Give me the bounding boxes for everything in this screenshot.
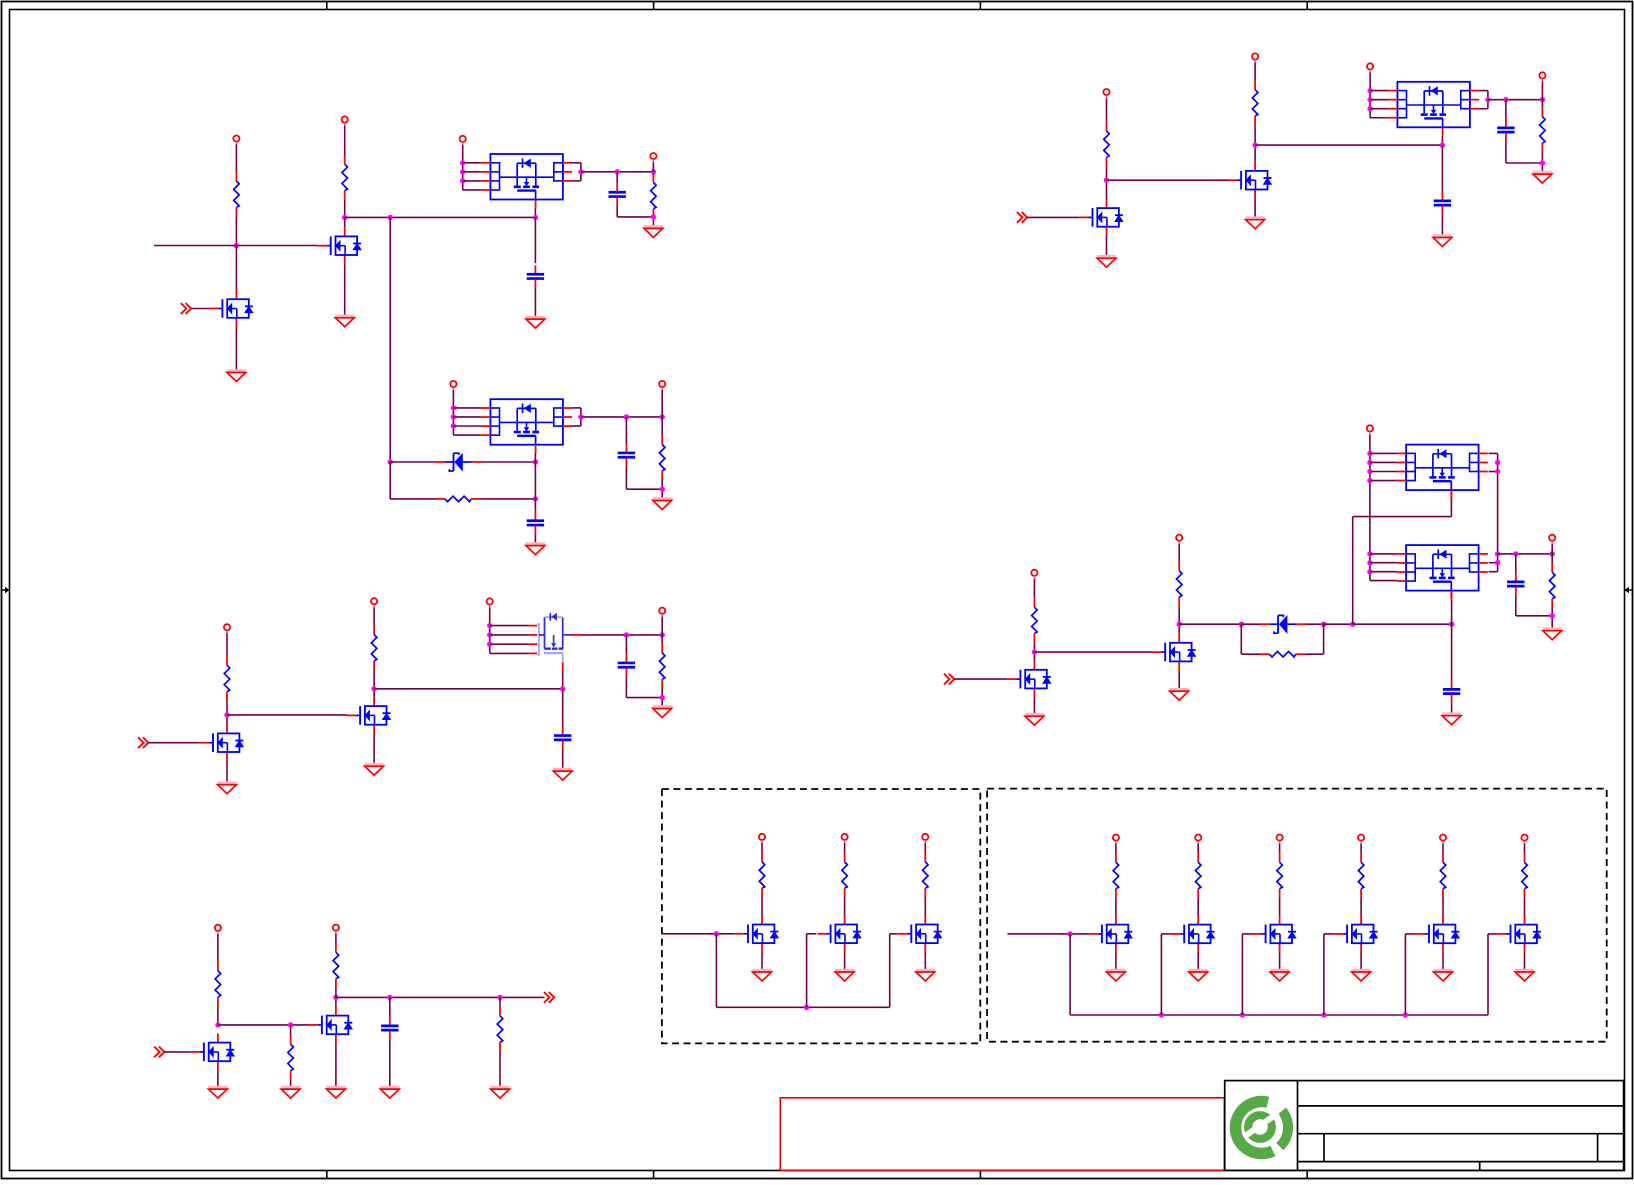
wire: [462, 145, 464, 190]
transistor Q2: [318, 227, 362, 264]
wire right pins bar: [580, 163, 582, 181]
node pin3 junction: [460, 178, 465, 183]
power port P9: [487, 598, 493, 607]
wire: [389, 462, 391, 499]
resistor R13: [1104, 122, 1110, 167]
ground: [916, 970, 935, 981]
wire: [235, 246, 237, 291]
wire: [148, 742, 199, 744]
node junction C1 top: [615, 169, 620, 174]
resistor R28: [1522, 853, 1528, 898]
ground: [653, 707, 672, 718]
wire pin4: [490, 652, 529, 654]
ground: [1442, 714, 1461, 725]
wire riser cell B: [806, 934, 808, 1008]
node junction R19 top: [1550, 551, 1555, 556]
wire: [1033, 579, 1035, 598]
logo EasyEDA: [1236, 1102, 1289, 1154]
node junction U5 srcpin3: [1495, 469, 1500, 474]
ground: [1433, 970, 1452, 981]
wire gate line Q4: [227, 714, 347, 716]
wire: [661, 390, 663, 417]
capacitor C4: [527, 512, 544, 534]
wire gate line Q6: [218, 1024, 309, 1026]
power port P7: [224, 624, 230, 633]
wire: [625, 466, 627, 489]
ground: [335, 316, 354, 327]
output port chevron OUT1: [544, 992, 554, 1003]
wire: [1279, 898, 1281, 916]
node junction R5 top: [660, 414, 665, 419]
wire: [616, 206, 618, 217]
wire: [1033, 698, 1035, 714]
wire source net out: [1498, 553, 1553, 555]
resistor R16: [1032, 598, 1038, 643]
power port P19: [1367, 425, 1373, 434]
wire drain bus: [345, 216, 536, 218]
node junction U6 srcpin1: [1495, 551, 1500, 556]
power port P8: [371, 598, 377, 607]
wire: [335, 997, 337, 1006]
wire: [661, 617, 663, 635]
power mosfet U5: [1397, 445, 1488, 499]
wire: [761, 843, 763, 853]
power port array2-2: [1195, 835, 1201, 844]
wire: [1442, 844, 1444, 854]
node junction R8 bottom: [660, 695, 665, 700]
node junction C5 top: [624, 632, 629, 637]
wire: [924, 843, 926, 853]
node junction R1-gate wire: [234, 243, 239, 248]
node junction zener right: [1321, 622, 1326, 627]
node pin3 junction: [1367, 106, 1372, 111]
transistor Q11: [735, 915, 779, 952]
ground: [1189, 970, 1208, 981]
wire: [761, 952, 763, 970]
wire pin4: [463, 189, 482, 191]
wire: [1551, 544, 1553, 554]
wire bypass left: [1240, 624, 1242, 654]
wire: [1197, 952, 1199, 969]
resistor R12: [497, 1007, 503, 1052]
power port P16: [1539, 72, 1545, 81]
resistor R11: [333, 943, 339, 988]
resistor R22: [923, 853, 929, 898]
resistor R27: [1440, 853, 1446, 898]
transistor Q3: [200, 724, 244, 761]
wire: [226, 701, 228, 724]
node junction R15 top: [1540, 97, 1545, 102]
wire: [844, 898, 846, 916]
power mosfet U4: [1388, 82, 1479, 136]
wire: [1360, 898, 1362, 916]
node pin1 junction: [451, 405, 456, 410]
ground: [217, 783, 236, 794]
wire: [1115, 952, 1117, 969]
resistor R5: [659, 435, 665, 480]
wire: [1306, 623, 1323, 625]
wire gate line Q10: [1034, 651, 1152, 653]
power mosfet U2: [481, 399, 572, 453]
wire: [1541, 152, 1543, 172]
node U6 pin3 junction: [1367, 569, 1372, 574]
wire: [489, 607, 491, 653]
wire: [390, 498, 435, 500]
wire: [954, 678, 1007, 680]
wire: [1451, 624, 1453, 680]
resistor R15: [1540, 107, 1546, 152]
ground: [208, 1087, 227, 1098]
wire: [1551, 608, 1553, 629]
wire pin1: [463, 162, 482, 164]
node pin1 junction: [487, 623, 492, 628]
wire: [335, 1043, 337, 1087]
wire U6 pin2: [1370, 562, 1397, 564]
capacitor C7: [381, 1017, 398, 1039]
input port chevron IN2: [138, 737, 148, 748]
wire bypass right: [1305, 653, 1324, 655]
power port array1-2: [842, 834, 848, 843]
node pin1 junction: [1367, 88, 1372, 93]
node U6 pin2 junction: [1367, 560, 1372, 565]
ground: [1025, 714, 1044, 725]
wire: [499, 997, 501, 1006]
resistor R20: [759, 853, 765, 898]
node junction Q6 drain: [333, 995, 338, 1000]
node pin2 junction: [451, 414, 456, 419]
resistor R10: [288, 1035, 294, 1080]
wire pin2: [453, 416, 481, 418]
resistor R8: [659, 644, 665, 689]
wire: [290, 1025, 292, 1035]
resistor R17: [1176, 562, 1182, 607]
power port array2-3: [1277, 835, 1283, 844]
power port array1-1: [759, 834, 765, 843]
power port array2-1: [1113, 835, 1119, 844]
wire: [217, 1070, 219, 1087]
wire riser cell 5: [1404, 934, 1406, 1015]
capacitor C2: [527, 265, 544, 287]
node junction U3 drain bus: [560, 686, 565, 691]
wire riser cell 4: [1323, 934, 1325, 1015]
capacitor C10: [1507, 573, 1524, 595]
node junction gate bus tap4: [1321, 1012, 1326, 1017]
node junction R7-drain bus: [371, 686, 376, 691]
wire: [217, 934, 219, 962]
node pin3 junction: [451, 423, 456, 428]
resistor R1: [234, 172, 240, 217]
ground: [644, 227, 663, 238]
node junction gate bus tap2: [1159, 1012, 1164, 1017]
wire: [1360, 952, 1362, 969]
wire U6 pin4: [1370, 580, 1397, 582]
wire: [344, 264, 346, 315]
wire: [1441, 145, 1443, 192]
resistor R18 bypass: [1260, 651, 1305, 657]
wire: [661, 480, 663, 498]
capacitor C9: [1434, 192, 1451, 214]
wire gate line Q2: [154, 245, 318, 247]
node junction D1 anode net: [533, 459, 538, 464]
wire: [389, 1039, 391, 1087]
wire: [191, 308, 209, 310]
wire right pins bar: [1487, 91, 1489, 109]
node junction R3 bottom: [651, 214, 656, 219]
transistor U3 power mosfet: [529, 625, 537, 627]
wire: [625, 417, 627, 444]
power port P15: [1367, 63, 1373, 72]
transistor Q14: [1089, 915, 1133, 952]
capacitor C1: [609, 183, 626, 205]
wire gate bus: [1070, 1014, 1488, 1016]
wire: [1360, 844, 1362, 854]
node junction U4 drain: [1440, 142, 1445, 147]
power port array2-6: [1521, 835, 1527, 844]
wire: [1254, 199, 1256, 218]
wire: [344, 217, 346, 227]
power port P12: [333, 925, 339, 934]
node U6 pin1 junction: [1367, 551, 1372, 556]
wire U6 pin1: [1370, 553, 1397, 555]
wire: [1254, 125, 1256, 162]
power mosfet U6: [1397, 545, 1488, 599]
wire riser cell 2: [1160, 934, 1162, 1015]
wire: [1541, 81, 1543, 99]
wire pin3: [463, 180, 482, 182]
transistor Q16: [1252, 915, 1296, 952]
wire: [1541, 100, 1543, 108]
wire: [1106, 167, 1108, 199]
wire: [373, 734, 375, 764]
transistor Q17: [1334, 915, 1378, 952]
resistor R25: [1277, 853, 1283, 898]
wire: [482, 461, 536, 463]
resistor R24: [1195, 853, 1201, 898]
wire: [1369, 434, 1371, 580]
resistor R4: [436, 496, 481, 502]
ground: [1533, 172, 1552, 183]
wire: [844, 843, 846, 853]
wire source net: [581, 416, 662, 418]
node junction R15 bottom: [1540, 160, 1545, 165]
wire vertical drop to block2: [389, 217, 391, 462]
wire riser cell 6: [1487, 934, 1489, 1015]
wire: [661, 689, 663, 707]
wire: [1515, 554, 1517, 573]
wire: [1451, 703, 1453, 714]
wire bus drop: [715, 934, 717, 1008]
wire: [1241, 623, 1259, 625]
ground: [526, 544, 545, 555]
power port P5: [450, 381, 456, 390]
power port P11: [215, 925, 221, 934]
wire gate bus: [716, 1006, 889, 1008]
wire: [534, 288, 536, 317]
node junction C7 tap: [387, 995, 392, 1000]
wire bus drop: [1069, 934, 1071, 1015]
node junction C10 top: [1513, 551, 1518, 556]
transistor Q18: [1416, 915, 1460, 952]
node junction gate bus tap3: [1240, 1012, 1245, 1017]
wire pin3: [1370, 108, 1388, 110]
wire: [344, 200, 346, 218]
wire source net: [581, 171, 654, 173]
wire pin1: [453, 407, 481, 409]
node junction U2 source out: [578, 414, 583, 419]
node U5 pin1 junction: [1367, 451, 1372, 456]
transistor Q6: [309, 1006, 353, 1043]
transistor Q9: [1007, 661, 1051, 698]
capacitor C11: [1443, 680, 1460, 702]
wire: [1324, 623, 1353, 625]
wire pin4: [453, 434, 481, 436]
ground: [553, 769, 572, 780]
wire: [1027, 216, 1079, 218]
wire: [1178, 671, 1180, 689]
power port P17: [1031, 570, 1037, 579]
node pin2 junction: [487, 632, 492, 637]
wire: [373, 670, 375, 697]
node junction R6-gate wire: [224, 712, 229, 717]
resistor R19: [1549, 563, 1555, 608]
node junction gate bus tap5: [1403, 1012, 1408, 1017]
wire: [1197, 898, 1199, 916]
wire source net: [1488, 99, 1543, 101]
wire: [1115, 898, 1117, 916]
ground: [490, 1087, 509, 1098]
transistor Q8: [1228, 162, 1272, 199]
wire: [1197, 844, 1199, 854]
wire U3 source out: [572, 634, 581, 636]
wire pin3: [490, 643, 529, 645]
wire: [924, 952, 926, 970]
node U5 pin3 junction: [1367, 469, 1372, 474]
wire: [844, 952, 846, 970]
wire: [1106, 236, 1108, 256]
wire: [235, 217, 237, 246]
wire output bus: [336, 996, 545, 998]
wire: [661, 417, 663, 435]
wire gate line Q8: [1107, 179, 1228, 181]
capacitor C6: [554, 727, 571, 749]
dashed group box 2: [987, 789, 1607, 1042]
wire: [1441, 214, 1443, 235]
ground: [1351, 970, 1370, 981]
ground: [1433, 236, 1452, 247]
transistor Q7: [1079, 199, 1123, 236]
power port P3: [460, 136, 466, 145]
node junction R13-gate wire: [1104, 178, 1109, 183]
title block outline: [1225, 1081, 1624, 1171]
resistor R21: [842, 853, 848, 898]
resistor R3: [651, 173, 657, 218]
node junction zener cathode net: [388, 459, 393, 464]
wire: [235, 327, 237, 370]
wire: [1178, 606, 1180, 633]
wire U5-U6 right bar: [1497, 453, 1499, 571]
node junction zener left: [1239, 622, 1244, 627]
wire pin1: [1370, 90, 1388, 92]
transistor Q19: [1497, 915, 1541, 952]
wire pin2: [1370, 99, 1388, 101]
power port P14: [1252, 53, 1258, 62]
ground: [1245, 218, 1264, 229]
wire: [344, 126, 346, 156]
wire: [1505, 141, 1507, 163]
wire: [1442, 898, 1444, 916]
power port P2: [342, 116, 348, 125]
frame zone ticks top: [327, 2, 1307, 10]
wire U4 drain: [1441, 136, 1443, 146]
node junction R9-gate wire: [215, 1022, 220, 1027]
node junction R16-gate wire: [1032, 649, 1037, 654]
diode zener D2: [1260, 615, 1307, 634]
wire: [661, 635, 663, 644]
power port P18: [1176, 535, 1182, 544]
ground: [653, 499, 672, 510]
resistor R7: [371, 625, 377, 670]
node junction U5 drain drop: [1350, 622, 1355, 627]
wire: [534, 499, 536, 512]
wire: [1353, 623, 1452, 625]
wire: [452, 390, 454, 435]
wire: [761, 898, 763, 916]
power mosfet U1: [481, 154, 572, 208]
wire bus: [1179, 623, 1241, 625]
resistor R14: [1252, 80, 1258, 125]
wire U3 drain: [562, 662, 564, 671]
capacitor C5: [618, 654, 635, 676]
node junction U6 drain: [1449, 622, 1454, 627]
resistor R23: [1113, 853, 1119, 898]
wire U5 pin4: [1370, 480, 1397, 482]
wire: [1369, 72, 1371, 117]
ground: [1106, 970, 1125, 981]
node pin2 junction: [1367, 97, 1372, 102]
wire riser cell C: [889, 934, 891, 1008]
power port P4: [650, 153, 656, 162]
ground: [1515, 970, 1534, 981]
wire: [1515, 595, 1517, 616]
wire: [652, 162, 654, 172]
power port P13: [1103, 89, 1109, 98]
node junction gate bus tap1: [714, 931, 719, 936]
power port P20: [1549, 535, 1555, 544]
node junction C3 top: [624, 414, 629, 419]
resistor R26: [1358, 853, 1364, 898]
wire: [924, 898, 926, 916]
resistor R2: [342, 155, 348, 200]
ground: [364, 764, 383, 775]
wire: [652, 217, 654, 226]
input port chevron IN1: [181, 303, 191, 314]
wire: [1279, 952, 1281, 969]
frame zone ticks bottom: [327, 1171, 1307, 1179]
wire: [1442, 952, 1444, 969]
wire gate feed: [1007, 933, 1088, 935]
wire riser cell 3: [1241, 934, 1243, 1015]
node junction U4 source out: [1485, 97, 1490, 102]
wire U5 drain link: [1352, 517, 1354, 625]
wire U5 pin1: [1370, 452, 1397, 454]
ground: [752, 970, 771, 981]
wire: [290, 1080, 292, 1087]
wire: [534, 534, 536, 543]
ground: [1097, 256, 1116, 267]
wire: [235, 145, 237, 172]
node junction U1 drain: [533, 215, 538, 220]
input port chevron IN3: [154, 1047, 164, 1058]
